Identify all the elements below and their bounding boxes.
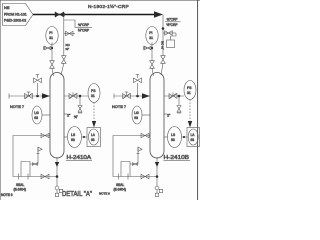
inlet valve A (25, 92, 33, 99)
drain stub below outlet B (178, 96, 180, 105)
svg-text:63: 63 (171, 138, 175, 142)
border left (0, 0, 2, 200)
signal line dashed A (93, 103, 95, 123)
drain valve B (141, 133, 149, 137)
wire LS to vessel A (64, 136, 68, 138)
seal loop A (19, 162, 31, 180)
level gauge LG-63 B (132, 106, 142, 124)
valve above vessel A dome right (62, 56, 67, 64)
node (183, 136, 185, 138)
svg-text:63: 63 (91, 138, 95, 142)
node (151, 47, 153, 49)
svg-text:63: 63 (134, 116, 138, 120)
svg-text:LS: LS (171, 133, 176, 137)
wire LG to vessel B (142, 114, 150, 116)
seal vent riser B (130, 152, 138, 164)
svg-text:SEAL: SEAL (116, 183, 124, 187)
border top (0, 0, 200, 2)
svg-text:H-2410B: H-2410B (164, 155, 190, 161)
svg-text:DETAIL "A": DETAIL "A" (62, 191, 92, 198)
valve above vessel B dome left (150, 61, 155, 69)
svg-text:31: 31 (49, 36, 53, 40)
wire down to vessel A dome (63, 34, 65, 56)
junction node (162, 27, 165, 30)
drain stub below outlet A (79, 96, 81, 105)
inlet valve B (123, 92, 131, 99)
seal drain valve A (41, 174, 49, 178)
svg-text:31: 31 (91, 94, 95, 98)
vent valve above inlet A (37, 83, 39, 96)
svg-text:SEAL: SEAL (16, 183, 24, 187)
vent valve above inlet B (137, 83, 139, 96)
svg-text:LG: LG (34, 111, 39, 115)
svg-text:P&ID-1902-02: P&ID-1902-02 (4, 19, 26, 23)
svg-text:H-2410A: H-2410A (67, 155, 92, 161)
vessel H-2410B (150, 73, 164, 159)
drain funnel A (55, 186, 59, 190)
seal vent riser A (30, 152, 38, 164)
svg-text:½"CRP: ½"CRP (167, 23, 179, 27)
svg-text:NOTE 7: NOTE 7 (112, 104, 126, 109)
2" nozzle label A (64, 113, 67, 115)
node (51, 47, 53, 49)
svg-text:FROM N1-101: FROM N1-101 (4, 13, 27, 17)
2" nozzle label B (164, 113, 167, 115)
level switch LSH-63 B (168, 127, 182, 148)
vessel B bottom drain (156, 157, 158, 186)
svg-text:PI: PI (49, 31, 52, 35)
drain funnel B (155, 186, 159, 190)
wire PI to vessel A (51, 42, 53, 60)
signal line dashed B (189, 100, 191, 123)
svg-text:63: 63 (191, 138, 195, 142)
svg-text:NE: NE (4, 5, 10, 10)
vent valve stub left top (63, 20, 65, 34)
svg-text:31: 31 (187, 91, 191, 95)
level gauge LG-63 A (32, 106, 42, 124)
outlet valve A (69, 92, 77, 99)
instrument PI-31 (vessel A top) (46, 27, 58, 45)
valve above vessel A dome left (50, 61, 55, 69)
svg-text:NOTE 7: NOTE 7 (10, 104, 24, 109)
valve on main header (normally closed) (55, 12, 64, 17)
svg-text:31: 31 (149, 36, 153, 40)
inlet flow arrow A (42, 93, 50, 99)
svg-text:¾": ¾" (74, 115, 78, 119)
gauge valve stub left (44, 47, 53, 49)
wire PI to vessel B (151, 42, 153, 60)
node (83, 136, 85, 138)
shared display instrument B (187, 128, 200, 147)
svg-text:N-1902-1½"-CRP: N-1902-1½"-CRP (88, 3, 129, 10)
wire branch to spec break left (64, 15, 77, 28)
wire LS to vessel B (164, 136, 168, 138)
svg-text:NOTE 6: NOTE 6 (1, 193, 13, 197)
vent valve stub right top (163, 32, 176, 34)
svg-text:LG: LG (134, 111, 139, 115)
valve above vessel B dome right (161, 56, 166, 64)
instrument PI-31 outlet A (88, 84, 100, 103)
outlet pipe B (164, 95, 184, 97)
outlet pipe A (64, 95, 88, 97)
spec break labels right (165, 18, 181, 28)
node (79, 95, 82, 98)
svg-text:½"CRP: ½"CRP (78, 29, 90, 33)
svg-text:63: 63 (34, 116, 38, 120)
flow arrow into header turn (154, 11, 163, 17)
drain valve A (41, 133, 49, 137)
node (136, 95, 139, 98)
svg-text:¾": ¾" (66, 47, 70, 51)
svg-text:63: 63 (71, 138, 75, 142)
svg-text:(E-2404): (E-2404) (14, 188, 26, 192)
inlet pipe A (9, 95, 50, 97)
seal loop B (119, 162, 131, 180)
svg-text:PI: PI (149, 31, 152, 35)
svg-text:¾"CRP: ¾"CRP (78, 23, 90, 27)
junction node (62, 13, 65, 16)
instrument PI-31 outlet B (184, 81, 196, 100)
svg-text:(E-2404): (E-2404) (114, 188, 126, 192)
svg-text:LS: LS (71, 133, 76, 137)
svg-text:PS: PS (91, 89, 96, 93)
shared display instrument A (87, 128, 101, 147)
pipe header turn down (162, 15, 164, 56)
inlet flow arrow B (142, 93, 150, 99)
inlet pipe B (114, 95, 150, 97)
vessel A bottom drain (56, 157, 58, 186)
svg-text:¾"CRP: ¾"CRP (167, 18, 179, 22)
svg-text:NOTE 6: NOTE 6 (99, 192, 110, 196)
wire LG to vessel A (42, 114, 50, 116)
pipe main header N-1902 (33, 14, 156, 16)
instrument PI-31 (vessel B top) (146, 27, 158, 45)
outlet valve B (169, 92, 177, 99)
seal drain valve B (141, 174, 149, 178)
gauge valve stub left B (144, 47, 153, 49)
border right (197, 0, 199, 200)
svg-text:NC ¾": NC ¾" (161, 41, 165, 50)
level switch LSH-63 A (68, 127, 82, 148)
node (178, 95, 181, 98)
off-page connector FROM N1-101 P&ID-1902-02 (3, 4, 34, 26)
vessel H-2410A (50, 73, 64, 159)
drain pipe B (113, 136, 157, 177)
drain pipe A (13, 136, 57, 177)
node (36, 95, 39, 98)
svg-text:PS: PS (187, 86, 192, 90)
spec break labels left (77, 23, 93, 33)
